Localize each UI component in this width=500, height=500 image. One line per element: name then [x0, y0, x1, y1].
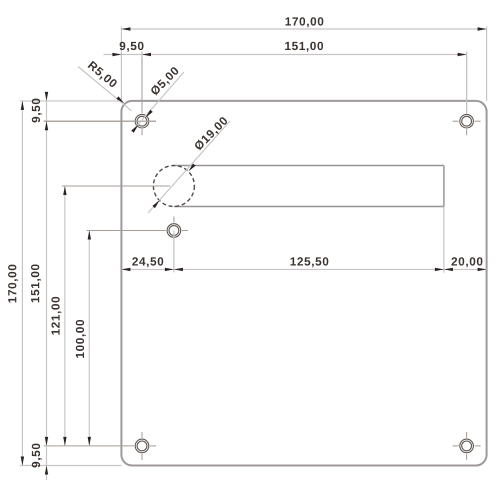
dim 9.5 bottom-left: [32, 444, 48, 475]
dim 24.5 bottom: [121, 207, 486, 273]
plate outline: [121, 101, 486, 466]
hole small: [86, 217, 187, 273]
hole top-left: [44, 52, 156, 136]
dim 100 left: [76, 231, 91, 446]
dim 9.5 top-left: [32, 92, 48, 123]
leader R5 corner radius: [78, 61, 132, 111]
hole bottom-right: [453, 432, 481, 460]
leader dia 5: [131, 66, 184, 133]
hole bottom-left: [44, 432, 156, 460]
slot circle (dashed): [153, 166, 194, 207]
dim 125.5 bottom: [174, 257, 444, 271]
dim 170 left: [8, 101, 121, 466]
dim 9.5 top: [112, 42, 143, 56]
dim 151 top: [104, 42, 467, 114]
dim 170 top: [121, 17, 486, 101]
dim 20 bottom: [444, 257, 487, 271]
slot circle centerline: [62, 185, 170, 187]
dim 151 left: [31, 92, 156, 481]
hole top-right: [453, 52, 481, 136]
leader dia 19: [148, 116, 230, 213]
slot outline: [174, 166, 444, 207]
dim 121 left: [51, 186, 66, 446]
